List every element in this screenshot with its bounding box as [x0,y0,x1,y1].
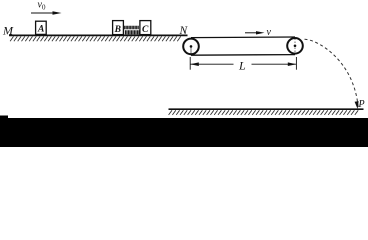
svg-text:A: A [37,25,44,35]
arrowhead v0 [53,11,62,15]
left pulley [183,39,199,55]
block C [140,21,151,35]
right pulley centerline [294,39,296,54]
svg-text:P: P [358,99,365,110]
svg-text:C: C [142,25,149,35]
hatching under surface M [10,36,181,41]
belt top line [191,36,295,39]
table surface M line [9,34,188,36]
belt bottom line [191,54,295,57]
left pulley axle dot [190,45,193,48]
black tab left [0,116,8,120]
block B [113,21,124,35]
svg-text:v0: v0 [38,0,46,12]
arrow v0 [31,12,54,14]
svg-text:L: L [238,58,246,72]
right pulley axle dot [294,45,297,48]
spring between B and C [125,26,139,30]
arrow v on belt [245,32,258,34]
ground line lower [169,108,364,110]
arrowhead v [256,31,265,34]
svg-text:v: v [267,27,272,38]
L dimension ticks [189,57,191,70]
left pulley axle mark [190,48,192,55]
L dimension line and arrowheads [190,63,296,65]
svg-text:B: B [114,25,121,35]
right pulley [287,38,303,54]
svg-text:N: N [179,25,189,37]
svg-text:M: M [2,23,14,37]
black bar bottom [0,118,368,147]
hatching under lower ground [169,110,359,115]
trajectory arrowhead [355,101,359,109]
projectile dashed trajectory [305,39,359,107]
block A [36,21,47,34]
